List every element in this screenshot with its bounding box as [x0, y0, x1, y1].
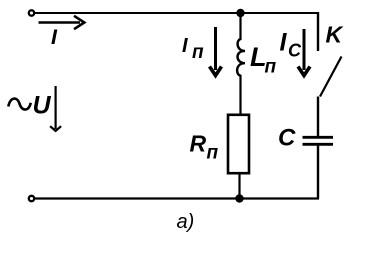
- current arrow I: [39, 16, 85, 29]
- wire from top node to inductor: [239, 13, 241, 40]
- svg-text:I: I: [51, 25, 58, 49]
- svg-text:п: п: [265, 57, 277, 78]
- svg-text:I: I: [182, 35, 188, 57]
- node top junction: [236, 9, 244, 17]
- svg-text:R: R: [190, 131, 207, 157]
- svg-text:п: п: [207, 143, 219, 164]
- wire capacitor to bottom: [317, 146, 319, 199]
- wire switch to capacitor: [317, 97, 319, 138]
- svg-text:C: C: [278, 125, 296, 152]
- AC source tilde: [8, 99, 31, 110]
- svg-text:п: п: [192, 42, 204, 63]
- wire bottom horizontal: [35, 197, 319, 199]
- switch K blade: [320, 57, 342, 97]
- wire right branch vertical upper: [317, 12, 319, 51]
- label R_п: [190, 131, 219, 164]
- voltage arrow U: [50, 86, 61, 131]
- node bottom junction: [235, 194, 243, 202]
- svg-text:C: C: [288, 40, 302, 60]
- wire resistor to bottom node: [238, 174, 240, 199]
- svg-text:I: I: [280, 29, 288, 57]
- wire inductor to resistor: [239, 75, 241, 115]
- terminal bottom-left: [29, 196, 34, 201]
- svg-text:a): a): [177, 211, 195, 233]
- current arrow I_c: [298, 29, 310, 76]
- resistor R_п: [228, 115, 249, 173]
- label I_c: [280, 29, 303, 61]
- svg-text:K: K: [326, 22, 344, 48]
- label I_п: [182, 35, 204, 63]
- capacitor C plates: [303, 137, 334, 144]
- current arrow I_п: [210, 27, 222, 76]
- label L_п: [250, 42, 277, 77]
- wire top horizontal: [35, 12, 318, 14]
- terminal top-left: [29, 10, 34, 15]
- svg-text:U: U: [33, 92, 52, 120]
- inductor L_п: [237, 39, 245, 76]
